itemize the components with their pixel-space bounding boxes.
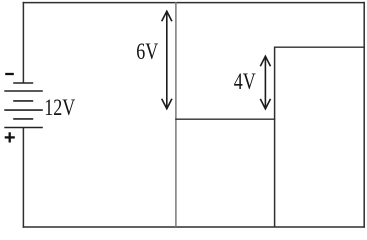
- svg-text:12V: 12V: [44, 96, 75, 120]
- svg-text:6V: 6V: [136, 40, 158, 64]
- wire top-right horizontal: [274, 46, 365, 48]
- battery plus sign: [5, 132, 15, 142]
- wire middle vertical branch: [175, 2, 177, 227]
- wire left border upper (to battery - terminal): [22, 2, 24, 83]
- battery B1 12V: [4, 83, 43, 128]
- wire right border: [363, 2, 365, 228]
- wire step horizontal (middle node): [175, 118, 275, 120]
- voltage arrow 4V (double-headed): [260, 56, 270, 109]
- wire left border lower (from battery + terminal): [22, 128, 24, 228]
- voltage arrow 6V (double-headed): [162, 11, 172, 109]
- wire bottom border: [23, 226, 365, 228]
- svg-text:4V: 4V: [234, 70, 256, 94]
- battery minus sign: [5, 73, 14, 75]
- wire step vertical branch: [274, 47, 276, 228]
- wire top border: [23, 2, 365, 4]
